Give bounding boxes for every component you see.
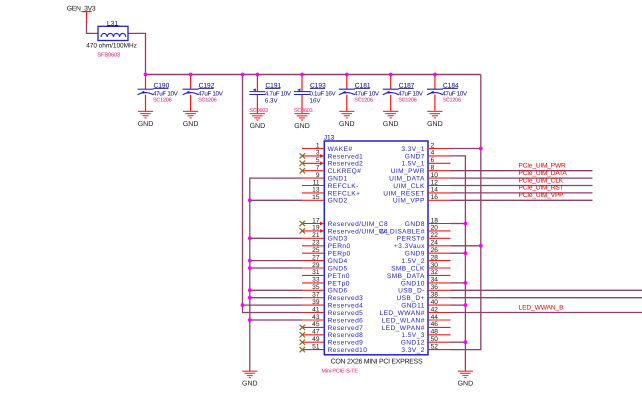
svg-text:GND: GND <box>458 381 474 388</box>
pin 11 REFCLK- <box>302 179 359 190</box>
svg-text:470 ohm/100MHz: 470 ohm/100MHz <box>86 42 137 49</box>
svg-text:GND: GND <box>242 381 258 388</box>
svg-text:Reserved10: Reserved10 <box>328 347 368 354</box>
pin 23 PERn0 <box>302 240 351 251</box>
svg-text:GND2: GND2 <box>328 198 348 205</box>
junction bus/C184 <box>433 73 437 77</box>
svg-text:CON 2X26 MINI PCI EXPRESS: CON 2X26 MINI PCI EXPRESS <box>331 359 423 366</box>
svg-text:1.5V_3: 1.5V_3 <box>401 332 424 339</box>
pin 27 GND4 <box>302 254 348 265</box>
junction right 3V3 pin 2 <box>479 147 483 151</box>
svg-text:42: 42 <box>431 306 439 313</box>
wire net LED_WWAN_B <box>451 312 642 314</box>
svg-text:PCIe_UIM_DATA: PCIe_UIM_DATA <box>519 170 568 177</box>
pin 49 Reserved9 <box>300 336 364 347</box>
svg-text:UIM_VPP: UIM_VPP <box>393 198 425 205</box>
svg-text:LED_WWAN_B: LED_WWAN_B <box>519 304 565 311</box>
svg-text:52: 52 <box>431 343 439 350</box>
svg-text:GND6: GND6 <box>328 288 348 295</box>
junction left GND pin 29 <box>248 266 252 270</box>
junction left GND pin 43 <box>248 318 252 322</box>
pin 47 Reserved8 <box>300 329 364 340</box>
wire net PCIe_UIM_PWR <box>451 170 593 172</box>
svg-text:11: 11 <box>313 179 320 186</box>
pin 31 PETn0 <box>302 269 350 280</box>
svg-text:31: 31 <box>312 269 320 276</box>
pin 5 Reserved2 <box>300 157 364 168</box>
junction right GND pin 40 <box>464 303 468 307</box>
pin 18 GND8 <box>405 217 451 228</box>
svg-text:SC1206: SC1206 <box>398 97 417 103</box>
svg-text:W_DISABLE#: W_DISABLE# <box>379 228 425 235</box>
wire GND pin 9 down to ground <box>250 178 302 371</box>
svg-text:30: 30 <box>431 262 439 269</box>
junction bus/3V3-left-drop <box>241 73 245 77</box>
capacitor C187 <box>383 75 424 112</box>
svg-text:13: 13 <box>312 187 320 194</box>
svg-text:19: 19 <box>312 225 320 232</box>
ground under C192 <box>183 111 199 127</box>
svg-text:Reserved9: Reserved9 <box>328 340 364 347</box>
svg-text:0.1uF 16V: 0.1uF 16V <box>310 91 337 98</box>
svg-text:29: 29 <box>312 262 320 269</box>
svg-text:20: 20 <box>431 225 439 232</box>
svg-text:GND7: GND7 <box>405 153 425 160</box>
svg-text:33: 33 <box>312 277 320 284</box>
svg-text:PETn0: PETn0 <box>328 273 350 280</box>
ground under C184 <box>427 111 443 127</box>
pin 32 SMB_DATA <box>387 269 451 280</box>
svg-text:USB_D+: USB_D+ <box>396 295 424 302</box>
capacitor C192 <box>183 75 224 112</box>
svg-text:GND1: GND1 <box>328 176 348 183</box>
pin 37 Reserved3 <box>302 292 363 303</box>
pin 8 UIM_PWR <box>391 165 451 176</box>
wire net PCIe_UIM_RST <box>451 192 593 194</box>
svg-text:Reserved3: Reserved3 <box>328 295 364 302</box>
pin 44 LED_WLAN# <box>382 314 451 325</box>
svg-text:4.7uF 10V: 4.7uF 10V <box>265 91 292 98</box>
pin 2 3.3V_1 <box>401 142 450 153</box>
junction bus/C192 <box>189 73 193 77</box>
svg-text:GND: GND <box>138 121 154 128</box>
wire 3V3 bus down right side to pin 52 <box>451 75 481 350</box>
svg-text:3.3V_1: 3.3V_1 <box>401 146 424 153</box>
svg-text:REFCLK-: REFCLK- <box>328 183 359 190</box>
svg-text:SMB_CLK: SMB_CLK <box>391 265 425 272</box>
svg-text:PETp0: PETp0 <box>328 280 350 287</box>
svg-text:PCIe_UIM_VPP: PCIe_UIM_VPP <box>519 192 565 199</box>
svg-text:4: 4 <box>431 150 435 157</box>
svg-text:Mini-PCIE-S-TE: Mini-PCIE-S-TE <box>322 369 359 375</box>
svg-text:26: 26 <box>431 247 439 254</box>
junction bus/C193 <box>300 73 304 77</box>
svg-text:2: 2 <box>431 142 435 149</box>
svg-text:LED_WWAN#: LED_WWAN# <box>379 310 424 317</box>
3V3 bus wire <box>146 74 481 76</box>
junction bus/C187 <box>389 73 393 77</box>
svg-text:GND4: GND4 <box>328 258 348 265</box>
wire GND pin 26 <box>451 252 466 254</box>
svg-text:50: 50 <box>431 336 439 343</box>
svg-text:GND: GND <box>427 121 443 128</box>
svg-text:PCIe_UIM_PWR: PCIe_UIM_PWR <box>519 163 567 170</box>
svg-text:Reserved1: Reserved1 <box>328 153 364 160</box>
pin 20 W_DISABLE# <box>379 225 450 236</box>
svg-text:15: 15 <box>312 194 320 201</box>
wire pin 24 to 3V3 <box>451 245 481 247</box>
svg-text:REFCLK+: REFCLK+ <box>328 190 361 197</box>
pin 17 Reserved/UIM_C8 <box>300 217 389 228</box>
svg-text:CLKREQ#: CLKREQ# <box>328 168 362 175</box>
svg-text:7: 7 <box>316 165 320 172</box>
wire GND pin 35 <box>250 289 302 291</box>
svg-text:45: 45 <box>312 321 320 328</box>
svg-text:43: 43 <box>312 314 320 321</box>
svg-text:PCIe_UIM_CLK: PCIe_UIM_CLK <box>519 177 564 184</box>
pin 48 1.5V_3 <box>401 329 450 340</box>
svg-text:6.3V: 6.3V <box>265 98 279 105</box>
pin 26 GND9 <box>405 247 451 258</box>
svg-text:Reserved6: Reserved6 <box>328 317 364 324</box>
svg-text:27: 27 <box>312 254 320 261</box>
pin 52 3.3V_2 <box>401 343 450 354</box>
pin 24 +3.3Vaux <box>394 240 451 251</box>
wire pin 2 to 3V3 <box>451 148 481 150</box>
svg-text:49: 49 <box>312 336 320 343</box>
svg-text:UIM_DATA: UIM_DATA <box>389 176 425 183</box>
capacitor C184 <box>427 75 468 112</box>
svg-text:GND: GND <box>294 123 310 130</box>
svg-text:51: 51 <box>312 343 320 350</box>
svg-text:SMB_DATA: SMB_DATA <box>387 273 425 280</box>
svg-text:SFB0603: SFB0603 <box>97 52 120 58</box>
junction right 3V3 pin 24 <box>479 244 483 248</box>
svg-text:LED_WPAN#: LED_WPAN# <box>382 325 425 332</box>
svg-text:1.5V_2: 1.5V_2 <box>401 258 424 265</box>
svg-text:6: 6 <box>431 157 435 164</box>
pin 34 GND10 <box>401 277 451 288</box>
capacitor C181 <box>339 75 380 112</box>
junction right GND pin 50 <box>464 340 468 344</box>
svg-text:GND10: GND10 <box>401 280 425 287</box>
svg-text:SC1206: SC1206 <box>153 97 172 103</box>
svg-text:9: 9 <box>316 172 320 179</box>
svg-text:38: 38 <box>431 292 439 299</box>
junction left GND pin 37 <box>248 296 252 300</box>
svg-text:USB_D-: USB_D- <box>398 288 425 295</box>
svg-text:GND5: GND5 <box>328 265 348 272</box>
power symbol GEN_3V3 <box>67 6 96 22</box>
svg-text:18: 18 <box>431 217 439 224</box>
pin 9 GND1 <box>302 172 348 183</box>
wire GND pin 29 <box>250 267 302 269</box>
wire GND pin 21 <box>250 237 302 239</box>
pin 12 UIM_CLK <box>393 179 450 190</box>
svg-text:47: 47 <box>312 329 320 336</box>
wire net PCIe_UIM_CLK <box>451 185 593 187</box>
svg-text:+3.3Vaux: +3.3Vaux <box>394 243 425 250</box>
ground bottom right <box>458 371 474 387</box>
ground under C181 <box>339 111 355 127</box>
capacitor C193 <box>294 75 337 115</box>
svg-text:LED_WLAN#: LED_WLAN# <box>382 317 425 324</box>
svg-text:3: 3 <box>316 150 320 157</box>
svg-text:GND: GND <box>339 121 355 128</box>
svg-text:32: 32 <box>431 269 439 276</box>
svg-text:35: 35 <box>312 284 320 291</box>
svg-text:16: 16 <box>431 194 439 201</box>
wire L31 to 3V3 bus <box>136 33 146 74</box>
svg-text:Reserved5: Reserved5 <box>328 310 364 317</box>
pin 13 REFCLK+ <box>302 187 360 198</box>
svg-text:PERST#: PERST# <box>397 236 425 243</box>
pin 16 UIM_VPP <box>393 194 451 205</box>
junction left GND pin 21 <box>248 236 252 240</box>
pin 25 PERp0 <box>302 247 351 258</box>
junction left GND pin 27 <box>248 259 252 263</box>
svg-text:Reserved4: Reserved4 <box>328 303 364 310</box>
pin 4 GND7 <box>405 150 451 161</box>
pin 14 UIM_RESET <box>383 187 450 198</box>
svg-text:PERn0: PERn0 <box>328 243 351 250</box>
svg-text:GND: GND <box>383 121 399 128</box>
svg-text:GND9: GND9 <box>405 251 425 258</box>
svg-text:25: 25 <box>312 247 320 254</box>
wire net PCIe_UIM_VPP <box>451 199 593 201</box>
pin 33 PETp0 <box>302 277 350 288</box>
svg-text:1.5V_1: 1.5V_1 <box>401 161 424 168</box>
svg-text:1: 1 <box>316 142 320 149</box>
pin 10 UIM_DATA <box>389 172 450 183</box>
svg-text:Reserved7: Reserved7 <box>328 325 364 332</box>
pin 15 GND2 <box>302 194 348 205</box>
pin 39 Reserved4 <box>302 299 363 310</box>
pin 36 USB_D- <box>398 284 450 295</box>
pin 30 SMB_CLK <box>391 262 450 273</box>
svg-text:41: 41 <box>312 306 320 313</box>
wire 3V3 to pin 39 <box>243 304 303 306</box>
ground bottom left <box>242 371 258 387</box>
ground under C187 <box>383 111 399 127</box>
pin 46 LED_WPAN# <box>382 321 451 332</box>
svg-text:GND: GND <box>250 123 266 130</box>
svg-text:3.3V_2: 3.3V_2 <box>401 347 424 354</box>
pin 42 LED_WWAN# <box>379 306 450 317</box>
junction left GND pin 35 <box>248 288 252 292</box>
svg-text:12: 12 <box>431 179 439 186</box>
wire GND pin 50 <box>451 341 466 343</box>
svg-text:8: 8 <box>431 165 435 172</box>
wire GND pin 15 <box>250 199 302 201</box>
svg-text:10: 10 <box>431 172 439 179</box>
svg-text:48: 48 <box>431 329 439 336</box>
svg-text:UIM_CLK: UIM_CLK <box>393 183 425 190</box>
svg-text:21: 21 <box>312 232 320 239</box>
wire GND pin 4 down to ground <box>451 156 466 371</box>
junction right GND pin 34 <box>464 281 468 285</box>
svg-text:SC1206: SC1206 <box>354 97 373 103</box>
svg-text:GND8: GND8 <box>405 221 425 228</box>
pin 51 Reserved10 <box>300 343 368 354</box>
svg-text:24: 24 <box>431 240 439 247</box>
pin 21 GND3 <box>302 232 348 243</box>
wire net USB_D- <box>451 289 642 291</box>
pin 29 GND5 <box>302 262 348 273</box>
svg-text:39: 39 <box>312 299 320 306</box>
wire GND pin 43 <box>250 319 302 321</box>
svg-text:UIM_PWR: UIM_PWR <box>391 168 425 175</box>
svg-text:PCIe_UIM_RST: PCIe_UIM_RST <box>519 185 564 192</box>
svg-text:Reserved2: Reserved2 <box>328 161 364 168</box>
junction right GND pin 18 <box>464 222 468 226</box>
pin 3 Reserved1 <box>300 150 364 161</box>
pin 41 Reserved5 <box>302 306 363 317</box>
svg-text:17: 17 <box>312 217 320 224</box>
junction left 3V3 pin 39 <box>241 303 245 307</box>
wire GND pin 18 <box>451 223 466 225</box>
svg-text:46: 46 <box>431 321 439 328</box>
pin 7 CLKREQ# <box>300 165 362 176</box>
pin 19 Reserved/UIM_C4 <box>300 225 389 236</box>
junction bus/C190 <box>144 73 148 77</box>
wire GND pin 40 <box>451 304 466 306</box>
svg-text:22: 22 <box>431 232 439 239</box>
svg-text:34: 34 <box>431 277 439 284</box>
svg-text:SC1206: SC1206 <box>442 97 461 103</box>
pin 50 GND12 <box>401 336 451 347</box>
wire GEN_3V3 to L31 <box>87 21 93 33</box>
svg-text:PERp0: PERp0 <box>328 251 351 258</box>
pin 45 Reserved7 <box>300 321 364 332</box>
svg-text:WAKE#: WAKE# <box>328 146 353 153</box>
wire GND pin 37 <box>250 297 302 299</box>
capacitor C191 <box>249 75 292 115</box>
svg-text:UIM_RESET: UIM_RESET <box>383 190 425 197</box>
svg-text:J13: J13 <box>324 134 335 141</box>
svg-text:Reserved8: Reserved8 <box>328 332 364 339</box>
svg-text:GND3: GND3 <box>328 236 348 243</box>
svg-text:16V: 16V <box>310 98 322 105</box>
junction bus/C181 <box>345 73 349 77</box>
wire GND pin 27 <box>250 260 302 262</box>
pin 28 1.5V_2 <box>401 254 450 265</box>
wire 3V3 bus down to pin 41 <box>243 75 303 313</box>
capacitor C190 <box>138 75 179 112</box>
wire net USB_D+ <box>451 297 642 299</box>
svg-text:GND: GND <box>183 121 199 128</box>
junction left GND pin 15 <box>248 198 252 202</box>
pin 38 USB_D+ <box>396 292 450 303</box>
wire GND pin 34 <box>451 282 466 284</box>
svg-text:Reserved/UIM_C8: Reserved/UIM_C8 <box>328 221 389 228</box>
pin 6 1.5V_1 <box>401 157 450 168</box>
svg-text:5: 5 <box>316 157 320 164</box>
svg-text:23: 23 <box>312 240 320 247</box>
svg-text:GND12: GND12 <box>401 340 425 347</box>
svg-text:GND11: GND11 <box>401 303 425 310</box>
svg-text:28: 28 <box>431 254 439 261</box>
svg-text:44: 44 <box>431 314 439 321</box>
svg-text:SC1206: SC1206 <box>198 97 217 103</box>
svg-text:40: 40 <box>431 299 439 306</box>
ground under C191 <box>250 114 266 130</box>
svg-text:36: 36 <box>431 284 439 291</box>
connector J13 body <box>324 134 428 354</box>
inductor L31 <box>86 20 137 58</box>
pin 1 WAKE# <box>302 142 353 153</box>
junction bus/C191 <box>256 73 260 77</box>
svg-text:37: 37 <box>312 292 320 299</box>
wire net PCIe_UIM_DATA <box>451 177 593 179</box>
pin 40 GND11 <box>401 299 450 310</box>
svg-text:14: 14 <box>431 187 439 194</box>
ground under C190 <box>138 111 154 127</box>
pin 35 GND6 <box>302 284 348 295</box>
pin 43 Reserved6 <box>302 314 363 325</box>
ground under C193 <box>294 114 310 130</box>
pin 22 PERST# <box>397 232 451 243</box>
junction right GND pin 26 <box>464 251 468 255</box>
